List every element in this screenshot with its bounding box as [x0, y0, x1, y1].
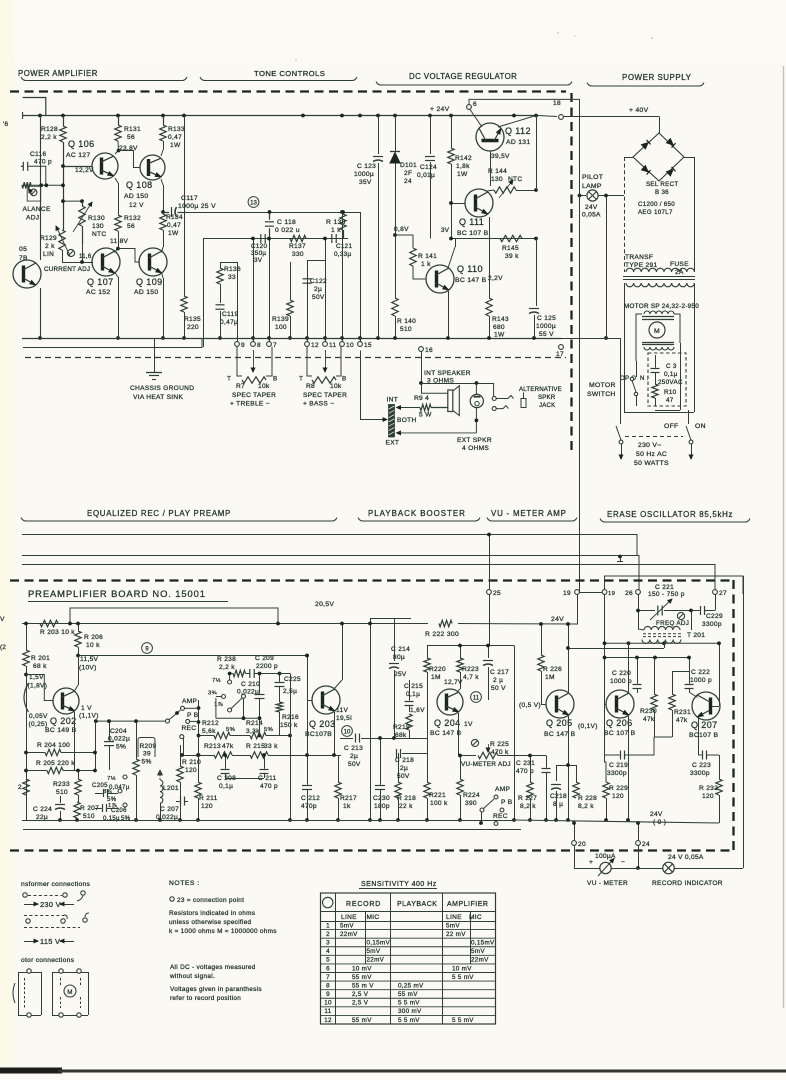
svg-text:M: M — [67, 989, 73, 996]
wire Q106 base — [63, 166, 92, 168]
wire Q112 leads — [470, 110, 482, 128]
svg-text:REC: REC — [493, 813, 508, 820]
svg-text:R 227: R 227 — [518, 795, 537, 802]
wire second bus — [23, 338, 202, 348]
wire EXT from jack — [475, 420, 477, 433]
svg-text:220: 220 — [187, 324, 199, 331]
freq adj screw — [677, 612, 684, 619]
terminal 16 — [419, 347, 424, 352]
svg-text:T: T — [227, 376, 231, 383]
svg-text:5 W: 5 W — [419, 412, 432, 419]
svg-text:Q 207: Q 207 — [691, 720, 718, 730]
resistor R136 — [217, 268, 223, 284]
svg-text:R212: R212 — [202, 720, 219, 727]
wire 26 to osc — [638, 595, 640, 630]
svg-text:R 203 10 k: R 203 10 k — [40, 629, 75, 636]
svg-text:120: 120 — [185, 767, 197, 774]
svg-text:100 k: 100 k — [430, 800, 448, 807]
svg-text:2,2 k: 2,2 k — [41, 134, 57, 141]
svg-text:SPEC TAPER: SPEC TAPER — [303, 392, 347, 399]
svg-text:R133: R133 — [168, 126, 185, 133]
board boundary dashed line top — [10, 90, 566, 92]
transistor Q203 — [312, 686, 340, 714]
svg-text:R 232: R 232 — [699, 785, 718, 792]
svg-text:C117: C117 — [181, 195, 198, 202]
svg-text:EQUALIZED REC / PLAY PREAM: EQUALIZED REC / PLAY PREAMP — [87, 509, 231, 518]
svg-text:24: 24 — [404, 178, 412, 185]
paper right edge — [783, 66, 785, 1008]
terminal 19b — [602, 590, 607, 595]
svg-text:11: 11 — [324, 1008, 331, 1015]
motor connection box right — [52, 972, 88, 974]
svg-text:13: 13 — [250, 199, 257, 206]
svg-text:55 mV: 55 mV — [352, 974, 372, 981]
svg-text:C1200 / 650: C1200 / 650 — [638, 201, 675, 208]
alternative jack contacts — [493, 383, 495, 396]
transistor Q204 — [437, 689, 463, 715]
svg-text:ALANCE: ALANCE — [23, 206, 51, 213]
wire 9 line — [78, 655, 307, 657]
svg-text:19,5I: 19,5I — [336, 715, 352, 722]
svg-text:7: 7 — [326, 974, 330, 981]
chassis ground symbol — [154, 338, 156, 372]
svg-text:PILOT: PILOT — [582, 174, 603, 181]
svg-text:PLAYBACK: PLAYBACK — [397, 901, 437, 908]
R225 vu-meter adj — [471, 739, 478, 746]
svg-text:2 µ: 2 µ — [493, 677, 503, 684]
svg-text:22mV: 22mV — [471, 957, 489, 964]
terminal 6 — [467, 105, 472, 110]
svg-text:LAMP: LAMP — [582, 183, 602, 190]
svg-text:C 217: C 217 — [490, 669, 509, 676]
wire Q112 emitter to Q111 — [487, 189, 489, 190]
svg-text:T: T — [299, 376, 303, 383]
svg-text:24V: 24V — [551, 616, 564, 623]
balance adjust pot — [30, 189, 37, 196]
svg-text:EXT: EXT — [386, 440, 400, 447]
capacitor C122 — [307, 260, 325, 262]
svg-text:510: 510 — [83, 813, 95, 820]
svg-text:5,6k: 5,6k — [202, 728, 216, 735]
svg-text:5 5 mV: 5 5 mV — [398, 1000, 420, 1007]
transistor Q110 — [426, 265, 454, 293]
svg-text:B: B — [342, 376, 347, 383]
terminal 11 — [323, 342, 328, 347]
svg-text:9: 9 — [326, 991, 330, 998]
svg-text:130: 130 — [92, 223, 104, 230]
svg-text:ERASE OSCILLATOR 85,5kHz: ERASE OSCILLATOR 85,5kHz — [607, 510, 733, 519]
terminal 25 — [487, 590, 492, 595]
svg-text:5%: 5% — [116, 744, 126, 751]
terminal 7 — [267, 342, 272, 347]
transistor Q112 — [476, 123, 504, 151]
wire long bus L2 — [22, 556, 639, 590]
capacitor C225 — [275, 682, 285, 684]
svg-text:AD 150: AD 150 — [124, 193, 148, 200]
svg-text:JACK: JACK — [539, 402, 555, 409]
svg-text:39 k: 39 k — [505, 253, 519, 260]
wire Q106 collector to node — [115, 151, 119, 155]
svg-text:1W: 1W — [168, 230, 179, 237]
svg-text:8: 8 — [257, 342, 261, 349]
svg-text:10: 10 — [346, 342, 354, 349]
svg-text:5mV: 5mV — [340, 922, 354, 929]
wire preamp bottom bus — [22, 820, 514, 822]
svg-text:R213: R213 — [204, 743, 221, 750]
svg-text:C 221: C 221 — [655, 584, 674, 591]
svg-text:1,8k: 1,8k — [456, 163, 470, 170]
svg-text:B: B — [273, 376, 278, 383]
switch INT/BOTH/EXT slide — [389, 405, 395, 438]
node 13 line — [186, 212, 361, 214]
svg-text:AC 127: AC 127 — [66, 152, 90, 159]
wire node to Q108 base — [119, 151, 141, 168]
svg-text:AD 131: AD 131 — [506, 139, 530, 146]
preamp board dashed border bottom — [10, 849, 733, 851]
svg-text:50V: 50V — [312, 294, 325, 301]
resistor R229 — [603, 782, 609, 798]
svg-text:RECORD: RECORD — [346, 901, 381, 908]
svg-text:Q 203: Q 203 — [309, 719, 336, 729]
svg-text:0,047µ: 0,047µ — [109, 784, 130, 791]
svg-text:R8: R8 — [306, 383, 315, 390]
svg-text:C218: C218 — [550, 793, 567, 800]
svg-text:22 mV: 22 mV — [446, 931, 466, 938]
svg-text:PLAYBACK BOOSTER: PLAYBACK BOOSTER — [368, 509, 466, 518]
svg-text:R 229: R 229 — [609, 785, 628, 792]
svg-text:3300p: 3300p — [690, 770, 710, 777]
svg-text:5 5 mV: 5 5 mV — [452, 1017, 474, 1024]
svg-text:BC107 B: BC107 B — [689, 732, 718, 739]
dashed separator under amp — [25, 357, 566, 359]
resistor R223 — [460, 646, 462, 659]
svg-text:510: 510 — [400, 326, 412, 333]
svg-text:35V: 35V — [359, 179, 372, 186]
switch mains left — [616, 426, 621, 440]
svg-text:R129: R129 — [40, 235, 57, 242]
resistor R134 — [160, 214, 166, 230]
wire +24V top bus — [22, 115, 538, 117]
resistor R222 — [439, 620, 452, 626]
wire 24V rail segment — [537, 627, 577, 629]
svg-text:OFF: OFF — [664, 423, 679, 430]
svg-text:BC 149 B: BC 149 B — [45, 727, 77, 734]
svg-text:C 207: C 207 — [160, 806, 179, 813]
svg-text:11,6: 11,6 — [79, 253, 92, 260]
switch box wires — [243, 698, 245, 718]
svg-text:R 205 220 k: R 205 220 k — [36, 760, 75, 767]
svg-text:M: M — [654, 328, 660, 335]
resistor R143 — [489, 217, 491, 298]
svg-text:−: − — [621, 859, 625, 866]
svg-text:AMP: AMP — [182, 698, 197, 705]
svg-text:0,15mV: 0,15mV — [367, 940, 391, 947]
resistor R131 — [115, 125, 121, 141]
svg-text:19: 19 — [563, 590, 571, 597]
svg-text:5mV: 5mV — [471, 948, 485, 955]
svg-text:BC 147 B: BC 147 B — [544, 731, 576, 738]
svg-text:Q 112: Q 112 — [505, 126, 531, 136]
wire 19b vertical to Q206 base — [604, 595, 606, 705]
svg-text:16: 16 — [425, 347, 433, 354]
wire preamp top bus — [22, 623, 428, 625]
current adjust screw — [67, 249, 74, 256]
transformer symbols 115V — [24, 941, 38, 943]
svg-text:24: 24 — [642, 841, 650, 848]
svg-text:VU-METER ADJ: VU-METER ADJ — [461, 761, 511, 768]
svg-text:0,47µ: 0,47µ — [220, 319, 238, 326]
wire R201 to Q202 base — [24, 673, 28, 677]
resistor R216 — [276, 702, 282, 712]
capacitor C218 — [396, 749, 398, 758]
svg-text:180p: 180p — [374, 803, 390, 810]
svg-text:R221: R221 — [429, 792, 446, 799]
svg-text:R209: R209 — [140, 743, 157, 750]
rectifier bridge — [633, 133, 684, 181]
wire vertical x536 top — [536, 116, 538, 191]
svg-text:R131: R131 — [124, 126, 141, 133]
wire node to R141 — [393, 233, 397, 237]
svg-text:C 222: C 222 — [691, 669, 710, 676]
svg-text:0,25 mV: 0,25 mV — [398, 982, 424, 989]
wire left switch drop — [620, 338, 622, 424]
svg-text:(0,5 V): (0,5 V) — [519, 702, 541, 709]
svg-text:C 210: C 210 — [241, 681, 260, 688]
svg-text:P B: P B — [501, 799, 513, 806]
wire Q204 leads — [458, 689, 460, 691]
wire switch column x198.5 — [198, 700, 200, 736]
resistor R211 — [195, 782, 201, 798]
svg-text:CHASSIS GROUND: CHASSIS GROUND — [130, 385, 194, 392]
svg-text:8,2 k: 8,2 k — [578, 803, 594, 810]
svg-text:68 k: 68 k — [33, 663, 47, 670]
svg-text:4,7 k: 4,7 k — [463, 674, 479, 681]
svg-text:7: 7 — [273, 342, 277, 349]
wire balance to R130 — [63, 200, 82, 202]
capacitor C206 — [102, 804, 104, 812]
svg-text:1000µ 25 V: 1000µ 25 V — [178, 203, 216, 210]
capacitor C217 — [488, 646, 490, 659]
svg-text:680: 680 — [493, 324, 505, 331]
svg-text:20,5V: 20,5V — [315, 601, 334, 608]
capacitor C3 dashed box — [648, 353, 686, 406]
svg-text:470 k: 470 k — [491, 749, 509, 756]
svg-text:250VAC: 250VAC — [658, 379, 683, 386]
svg-text:7½: 7½ — [107, 775, 116, 782]
resistor R201 — [26, 624, 28, 651]
preamp board dashed border right — [732, 580, 734, 851]
svg-text:1 k: 1 k — [331, 227, 341, 234]
svg-text:27: 27 — [719, 590, 727, 597]
svg-text:+: + — [589, 859, 593, 866]
svg-text:INT: INT — [387, 397, 399, 404]
wire Q109 emitter down — [162, 272, 164, 278]
svg-text:FUSE: FUSE — [670, 261, 689, 268]
node 9 circle — [142, 643, 153, 654]
transformer symbols 230V — [23, 893, 27, 897]
svg-text:Resistors indicated in ohm: Resistors indicated in ohms — [169, 910, 255, 917]
svg-text:47: 47 — [666, 397, 674, 404]
svg-text:C121: C121 — [336, 243, 352, 250]
svg-text:1,5V: 1,5V — [29, 674, 44, 681]
resistor R132 — [115, 215, 121, 231]
svg-text:V: V — [0, 616, 5, 623]
svg-text:RECORD INDICATOR: RECORD INDICATOR — [652, 880, 723, 887]
svg-text:150 k: 150 k — [280, 722, 298, 729]
svg-text:470 p: 470 p — [516, 768, 534, 775]
capacitor C219 — [620, 751, 622, 760]
transformer symbols row2 — [24, 915, 64, 917]
svg-text:DC VOLTAGE REGULATOR: DC VOLTAGE REGULATOR — [409, 72, 517, 81]
svg-text:VIA HEAT SINK: VIA HEAT SINK — [133, 394, 183, 401]
svg-text:MIC: MIC — [469, 914, 482, 921]
capacitor C211 — [260, 769, 269, 771]
jack circle — [470, 394, 483, 407]
svg-text:POWER SUPPLY: POWER SUPPLY — [622, 73, 692, 82]
resistor R141 — [410, 248, 416, 266]
wire step over R203 — [70, 608, 278, 624]
wire bus node dots — [38, 114, 42, 118]
terminal 10 — [340, 342, 345, 347]
svg-text:39: 39 — [143, 751, 151, 758]
svg-text:22 k: 22 k — [399, 803, 413, 810]
svg-text:C 224: C 224 — [33, 806, 52, 813]
svg-text:1 k: 1 k — [421, 261, 431, 268]
svg-text:R223: R223 — [462, 666, 479, 673]
svg-text:56: 56 — [127, 223, 135, 230]
svg-text:120: 120 — [201, 803, 213, 810]
svg-text:Q 111: Q 111 — [459, 217, 484, 227]
scan specks — [557, 32, 559, 34]
svg-text:C 214: C 214 — [391, 646, 410, 653]
svg-text:SWITCH: SWITCH — [587, 391, 616, 398]
transistor Q202 — [53, 688, 79, 714]
svg-text:R231: R231 — [674, 709, 691, 716]
terminal 8 — [251, 342, 256, 347]
motor windings bottom — [644, 347, 674, 350]
terminal 24 — [638, 823, 640, 840]
svg-text:2µ: 2µ — [314, 286, 322, 293]
svg-text:C116: C116 — [30, 151, 47, 158]
svg-text:T 201: T 201 — [687, 632, 705, 639]
svg-text:0,1µ: 0,1µ — [406, 691, 420, 698]
svg-text:15: 15 — [364, 342, 372, 349]
svg-text:12 V: 12 V — [129, 202, 144, 209]
svg-text:55 mV: 55 mV — [352, 1017, 372, 1024]
svg-text:C 215: C 215 — [404, 683, 423, 690]
svg-text:1,6V: 1,6V — [410, 707, 425, 714]
transistor Q206 — [606, 690, 634, 718]
wire tone verticals — [203, 239, 205, 348]
svg-text:55 V: 55 V — [539, 331, 554, 338]
svg-text:C 212: C 212 — [301, 795, 320, 802]
svg-text:+ 24V: + 24V — [430, 106, 450, 113]
wire Q108 collector to R133 — [161, 150, 163, 156]
svg-text:120: 120 — [702, 793, 714, 800]
resistor R135 — [181, 296, 187, 312]
svg-text:Q 107: Q 107 — [87, 277, 114, 287]
svg-text:SPKR: SPKR — [538, 394, 556, 401]
svg-text:C 118: C 118 — [277, 219, 296, 226]
svg-text:TONE CONTROLS: TONE CONTROLS — [254, 69, 325, 78]
resistor R220 — [424, 658, 430, 672]
svg-text:50V: 50V — [348, 761, 361, 768]
svg-text:without signal.: without signal. — [169, 973, 215, 980]
svg-text:C 3: C 3 — [666, 363, 677, 370]
svg-text:AMPLIFIER: AMPLIFIER — [447, 901, 488, 908]
svg-text:R 218: R 218 — [397, 795, 416, 802]
svg-text:3V: 3V — [254, 257, 263, 264]
wire node line y721 — [96, 720, 166, 722]
resistor R137 — [290, 235, 306, 241]
svg-text:22mV: 22mV — [340, 931, 358, 938]
svg-text:3300p: 3300p — [607, 770, 627, 777]
svg-text:SENSITIVITY 400 Hz: SENSITIVITY 400 Hz — [361, 881, 437, 888]
wire main ground bus — [22, 338, 562, 340]
svg-text:10 k: 10 k — [86, 642, 100, 649]
svg-text:C225: C225 — [284, 676, 301, 683]
svg-text:120: 120 — [612, 793, 624, 800]
svg-text:11,8V: 11,8V — [110, 238, 129, 245]
svg-text:Q 108: Q 108 — [126, 180, 153, 190]
svg-text:All DC - voltages measured: All DC - voltages measured — [170, 964, 256, 971]
svg-text:50 Hz AC: 50 Hz AC — [636, 451, 667, 458]
svg-text:C 209: C 209 — [255, 655, 274, 662]
wire 26 to primary left — [638, 629, 644, 630]
wire Q107 emitter — [115, 272, 119, 277]
svg-text:R137: R137 — [289, 243, 306, 250]
svg-text:R7: R7 — [236, 383, 245, 390]
wire x360 to 15 — [360, 212, 362, 214]
svg-text:R233: R233 — [53, 781, 70, 788]
svg-text:BC 147 B: BC 147 B — [455, 277, 487, 284]
svg-text:AC 152: AC 152 — [86, 289, 110, 296]
svg-text:18: 18 — [553, 100, 561, 107]
svg-text:R128: R128 — [41, 126, 58, 133]
svg-text:2F: 2F — [404, 170, 412, 177]
svg-text:R 206: R 206 — [84, 634, 103, 641]
left edge resistor — [23, 779, 29, 795]
resistor R128 — [60, 126, 66, 142]
svg-text:9: 9 — [241, 342, 245, 349]
svg-text:0,8V: 0,8V — [394, 226, 409, 233]
terminal 12 — [305, 342, 310, 347]
wire Q205 collector to oscillator — [568, 648, 664, 650]
svg-text:CURRENT ADJ: CURRENT ADJ — [44, 266, 90, 273]
svg-text:230 V~: 230 V~ — [638, 442, 662, 449]
wire 25 feed — [489, 535, 491, 590]
svg-text:1W: 1W — [170, 142, 181, 149]
svg-text:(0,1V): (0,1V) — [578, 723, 598, 730]
svg-text:LINE: LINE — [341, 914, 357, 921]
svg-text:7B: 7B — [19, 255, 28, 262]
svg-text:N :: N : — [640, 375, 649, 382]
svg-text:C229: C229 — [706, 613, 723, 620]
svg-text:2200 p: 2200 p — [256, 663, 278, 670]
svg-text:R 211: R 211 — [199, 795, 218, 802]
svg-text:ON: ON — [695, 423, 706, 430]
svg-text:50 V: 50 V — [491, 685, 506, 692]
svg-text:7½: 7½ — [212, 677, 221, 684]
svg-text:470 p: 470 p — [260, 783, 278, 790]
svg-text:47k: 47k — [643, 716, 655, 723]
wire Q207 leads — [698, 717, 700, 752]
svg-text:B 36: B 36 — [655, 189, 669, 196]
svg-text:C 218: C 218 — [395, 757, 414, 764]
capacitor C125 electrolytic — [536, 239, 538, 307]
svg-text:BC107B: BC107B — [305, 731, 332, 738]
wire Q203 leads — [334, 680, 342, 689]
